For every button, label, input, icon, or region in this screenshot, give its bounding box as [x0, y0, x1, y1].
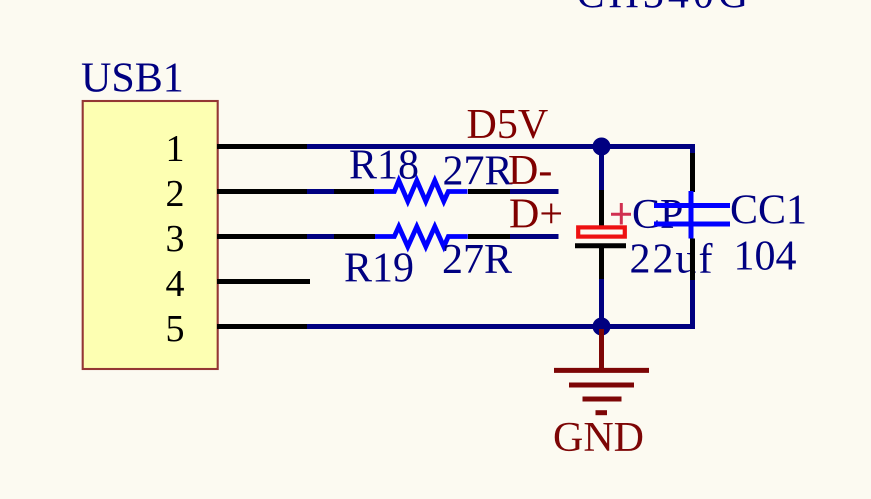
label R19 [344, 246, 414, 292]
svg-text:4: 4 [166, 263, 185, 305]
resistor R19 [334, 227, 510, 247]
wire pin3 to R19 [307, 234, 334, 239]
pin 3 [166, 218, 308, 260]
wire top rail corner down to CC1 [690, 144, 695, 153]
wire R19 to D+ [510, 234, 559, 239]
wire top junction down to CP [599, 147, 604, 191]
connector USB1 body [83, 101, 218, 369]
svg-text:USB1: USB1 [81, 56, 184, 102]
net label D5V [467, 102, 549, 148]
resistor R18 [334, 181, 510, 202]
wire D5V top rail [307, 144, 695, 149]
net label D- [508, 148, 552, 194]
svg-text:R18: R18 [349, 143, 419, 189]
svg-text:GND: GND [553, 415, 644, 461]
capacitor CP (polarized) [575, 190, 631, 279]
svg-text:27R: 27R [443, 149, 513, 195]
svg-text:D+: D+ [509, 192, 563, 238]
label CH340G (cut off at top) [577, 0, 753, 18]
wire pin2 to R18 [307, 189, 334, 194]
svg-text:CP: CP [632, 192, 683, 238]
pin 4 (unconnected stub) [166, 263, 311, 305]
wire ground rail (bottom) [307, 324, 695, 329]
wire CC1 to bottom rail [690, 280, 695, 329]
label CC1 [730, 188, 807, 234]
net label D+ [509, 192, 563, 238]
net label GND [553, 415, 644, 461]
svg-text:22uf: 22uf [630, 237, 715, 283]
junction top (D5V node) [593, 138, 611, 156]
svg-text:3: 3 [166, 218, 185, 260]
junction bottom (GND node) [593, 318, 611, 336]
svg-text:R19: R19 [344, 246, 414, 292]
svg-text:1: 1 [166, 128, 185, 170]
svg-text:5: 5 [166, 308, 185, 350]
value label 27R (R19) [442, 237, 512, 283]
value label 104 [734, 234, 797, 280]
svg-text:D5V: D5V [467, 102, 549, 148]
wire CP to bottom junction [599, 279, 604, 327]
wire R18 to D- [510, 189, 559, 194]
svg-text:2: 2 [166, 173, 185, 215]
label CP [632, 192, 683, 238]
svg-text:CC1: CC1 [730, 188, 807, 234]
value label 22uf [630, 237, 715, 283]
power port GND symbol [554, 329, 649, 413]
svg-text:27R: 27R [442, 237, 512, 283]
capacitor CC1 (ceramic) [654, 153, 730, 280]
svg-text:104: 104 [734, 234, 797, 280]
svg-text:CH340G: CH340G [577, 0, 753, 18]
label R18 [349, 143, 419, 189]
pin 5 [166, 308, 308, 350]
svg-text:D-: D- [508, 148, 552, 194]
pin 1 [166, 128, 308, 170]
pin 2 [166, 173, 308, 215]
value label 27R (R18) [443, 149, 513, 195]
refdes label USB1 [81, 56, 184, 102]
